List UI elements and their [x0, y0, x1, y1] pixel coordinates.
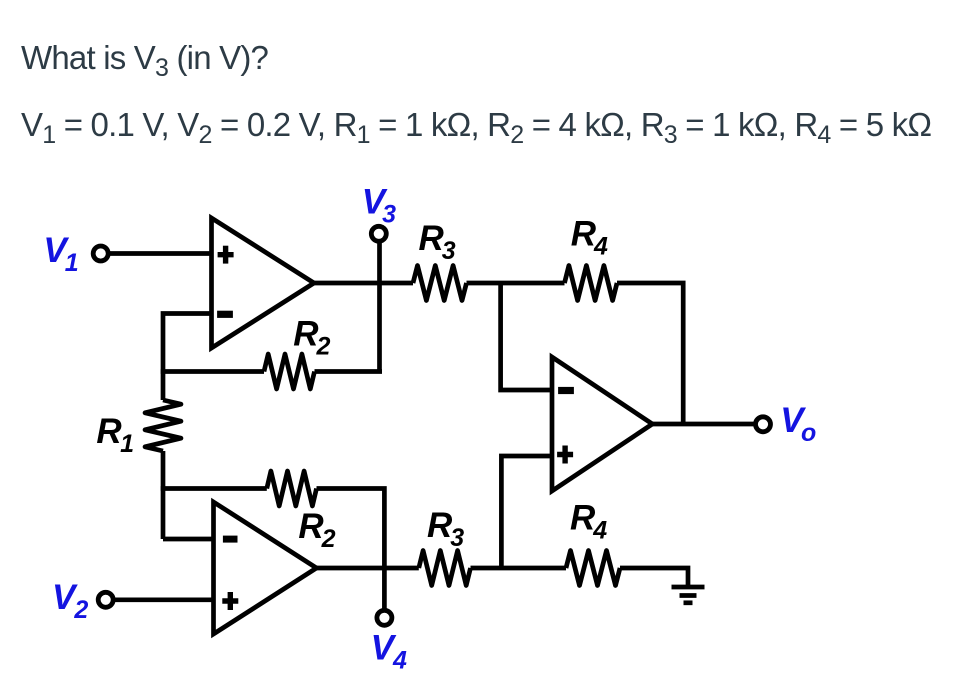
wire R2 top to V3 node	[315, 369, 383, 374]
wire R2 bottom to V4 node	[317, 489, 385, 569]
wire U3 + input	[501, 456, 552, 568]
ground	[672, 585, 705, 590]
U2 plus symbol	[222, 592, 238, 610]
wire R3 bottom to junction	[471, 566, 567, 571]
terminal V1	[93, 246, 108, 261]
U2 minus symbol	[223, 536, 238, 543]
terminal V2	[98, 592, 113, 607]
svg-text:V1 = 0.1 V, V2 = 0.2 V, R1 = 1: V1 = 0.1 V, V2 = 0.2 V, R1 = 1 kΩ, R2 = …	[21, 106, 931, 149]
U1 minus symbol	[217, 311, 233, 318]
terminal V4	[377, 610, 392, 625]
resistor R4 (bottom)	[566, 551, 620, 586]
terminal Vo	[756, 417, 771, 432]
resistor R4 (top)	[565, 266, 618, 301]
op-amp U1	[212, 218, 315, 348]
op-amp U2	[214, 502, 317, 634]
resistor R3 (bottom)	[419, 551, 471, 586]
wire U2 - input	[163, 537, 214, 542]
wire R2 top feedback	[161, 369, 264, 374]
op-amp U3	[552, 357, 652, 491]
wire R4 bottom to ground	[620, 568, 688, 585]
node V4 vertical	[382, 568, 387, 609]
wire U2 output row	[317, 566, 419, 571]
resistor R3 (top)	[413, 266, 467, 301]
wire U1 output row	[314, 281, 413, 286]
wire left rail below R1	[161, 451, 166, 539]
wire R2 bottom feedback	[161, 486, 267, 491]
U3 plus symbol	[557, 446, 573, 464]
node junction to U3 minus	[501, 283, 552, 390]
terminal V3	[371, 226, 386, 241]
resistor R2 (bottom)	[267, 471, 317, 506]
wire U1 - input	[163, 314, 211, 401]
wire V2 to U2 + input	[115, 597, 214, 602]
svg-text:What is V3 (in V)?: What is V3 (in V)?	[21, 39, 269, 82]
resistor R2 (top)	[264, 354, 315, 389]
resistor R1 (vertical)	[145, 400, 181, 451]
wire U3 output	[652, 422, 754, 427]
wire V1 to op-amp U1 + input	[110, 251, 211, 256]
wire R3 top to junction	[467, 281, 565, 286]
U1 plus symbol	[218, 246, 234, 264]
node V3 vertical	[377, 243, 382, 372]
wire R4 top to output node	[617, 283, 683, 424]
U3 minus symbol	[558, 387, 574, 394]
